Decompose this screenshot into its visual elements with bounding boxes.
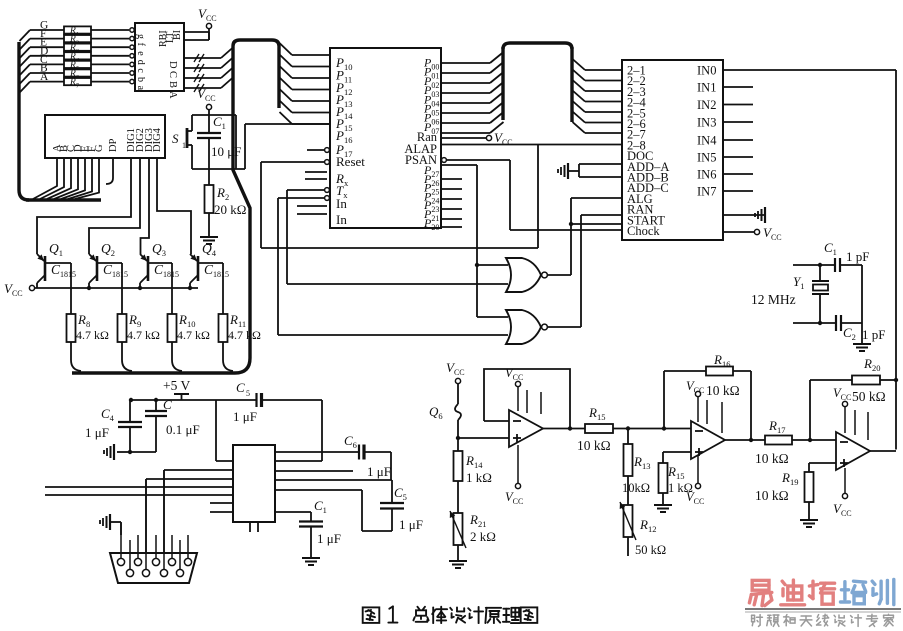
wire U1C output [869,450,896,452]
pin P17 stub of U2 [325,148,330,153]
wire PSAN to mux Chock [442,158,447,163]
svg-text:IN6: IN6 [697,168,716,182]
wire P26 stub [441,178,462,180]
resistor R17 (10k) [765,436,792,445]
pin d of U5 [130,54,134,58]
capacitor C6 (1uF) [274,451,359,453]
node rail-Q2 [87,286,91,290]
svg-text:12 MHz: 12 MHz [751,292,796,307]
svg-text:C: C [163,397,172,412]
pin a of U5 [130,79,134,83]
power Vcc (U1A bottom) [517,445,519,483]
wire C2 to ground [841,322,862,324]
gate G1 (NOR) [506,258,541,292]
svg-text:S: S [172,131,179,146]
svg-text:1 μF: 1 μF [399,517,423,532]
wire R15 to U1B minus [613,428,691,430]
crystal Y1 (12MHz) [819,265,821,281]
op-amp U1A [509,410,543,447]
wire P15 to reset rail [244,124,246,169]
wire bus A to MCU P1x [280,78,293,90]
svg-text:C: C [236,380,245,395]
pin In2 stubs of U2 [297,205,327,207]
svg-text:1 μF: 1 μF [233,409,257,424]
ground (R21) [449,560,467,562]
svg-text:1 pF: 1 pF [846,249,869,264]
resistor R2 (20k) [208,169,210,185]
watermark divider [745,608,901,610]
node rail-Q3 [138,286,142,290]
resistor R14 (1k) [457,438,459,451]
ground (R15b) [654,504,672,506]
ground (C4) [117,451,130,453]
wire U4 right pin 2 [274,479,392,481]
pin g of U5 [130,28,134,32]
pin J1 top 1 [117,558,124,565]
svg-text:g: g [135,34,146,39]
resistor R6 [64,69,91,76]
resistor R15b (1k) [663,451,691,453]
wire MCU P03 to bus B [441,92,490,94]
pin J1 top 4 [168,558,175,565]
wire DS1 pin D to bus [54,158,78,199]
resistor R15 (10k) [585,424,613,433]
svg-text:2 kΩ: 2 kΩ [470,529,496,544]
svg-text:10 kΩ: 10 kΩ [755,488,789,503]
wire U5 output C to bus [184,67,221,69]
svg-text:a: a [135,86,146,91]
pin Rx stubs of U2 [305,171,327,173]
wire bus A to MCU P1x [280,43,293,55]
svg-text:C: C [167,71,178,78]
svg-text:e: e [135,51,146,56]
svg-text:10 kΩ: 10 kΩ [755,451,789,466]
wire DS1 DIG4 to Q4 [157,158,191,254]
resistor R9 (4.7k) [118,314,127,342]
wire MCU P00 to bus B [441,62,490,64]
svg-text:IN4: IN4 [697,134,717,148]
svg-text:10 kΩ: 10 kΩ [706,383,740,398]
svg-text:1 pF: 1 pF [862,327,885,342]
wire bus B to mux 2-7 [573,122,586,133]
wire DS1 pin E to bus [61,158,85,199]
wire MCU P02 to bus B [441,82,490,84]
node rail-Q4 [188,286,192,290]
svg-text:50 kΩ: 50 kΩ [635,543,666,557]
svg-text:G: G [94,144,105,152]
pin J1 bottom 1 [126,569,133,576]
svg-text:10 μF: 10 μF [211,144,241,159]
wire DS1 DIG2 to Q2 [89,158,140,254]
wire gnd to ADD-B [579,176,622,178]
svg-text:1 kΩ: 1 kΩ [668,481,693,495]
potentiometer R12 (50k) [624,505,633,537]
wire In to gate G2 [325,196,330,201]
pin stubs U4 bottom-left [210,502,233,504]
wire ALG net [571,197,622,199]
ground (U3 bottom pin) [723,214,765,216]
pin b of U5 [130,71,134,75]
wire U5 output A to bus [184,87,221,89]
svg-text:IN3: IN3 [697,116,716,130]
wire G1 output to ALG net [547,274,571,276]
wire bus A to MCU P1x [280,66,293,78]
wire IN3 input stub [723,121,753,123]
watermark logo 易迪拓培训 [752,580,769,590]
power Vcc (U3) [723,231,754,233]
svg-text:10 kΩ: 10 kΩ [577,438,611,453]
wire U1B output [723,439,765,441]
wire IN1 input stub [723,86,753,88]
svg-text:4.7 kΩ: 4.7 kΩ [76,328,109,342]
wire reset RC bottom rail [192,168,245,170]
wire thick bus loop B (ADC data) [503,43,572,49]
wire bus B to mux 2-5 [573,101,586,112]
wire P21 stub [441,218,462,220]
pin stubs U4 bottom [249,522,251,532]
wire IN6 input stub [723,173,753,175]
pin J1 top 2 [134,558,141,565]
svg-text:BI: BI [172,30,183,40]
pin c of U5 [130,62,134,66]
power Vcc (Ran pin) [441,137,486,139]
transistor Q2 (C1815) [96,256,99,281]
wire bus B to mux 2-3 [573,80,586,91]
svg-text:PSAN: PSAN [405,153,437,167]
resistor R8 (4.7k) [67,314,76,342]
capacitor C2 (1pF) [835,315,837,331]
svg-text:4.7 kΩ: 4.7 kΩ [228,328,261,342]
resistor R11 (4.7k) [219,314,228,342]
resistor R16 (10k) feedback [663,371,665,429]
svg-text:+5 V: +5 V [163,378,190,393]
wire U4 long pin 1 [45,486,233,488]
IC DS1 4-digit display body [45,115,165,158]
pin J1 top 3 [152,558,159,565]
wire P27 to gate inputs [441,164,477,166]
capacitor C1b (1uF) [274,511,311,513]
capacitor C1 (10uF) [197,132,221,134]
resistor R7 [64,78,91,85]
svg-text:Reset: Reset [336,154,365,169]
connector J1 DB9 shell [110,553,197,583]
svg-text:1 kΩ: 1 kΩ [466,470,492,485]
wire DS1 pin F to bus [68,158,92,199]
svg-text:Chock: Chock [627,224,660,238]
wire MCU P06 to bus B [441,122,490,124]
transistor Q1 (C1815) [44,256,47,281]
pin J1 bottom 4 [176,569,183,576]
ground (J1) [109,514,111,530]
wire +5V rail [131,399,256,401]
svg-text:DP: DP [108,138,119,152]
wire MCU P07 to bus B [441,132,490,134]
wire bus A to MCU P1x [280,112,293,124]
svg-text:In: In [336,196,347,211]
svg-text:c: c [135,68,146,73]
resistor R1 [64,26,91,33]
gate G2 (NOR) [506,310,541,344]
wire C1 to right [840,264,862,266]
wire U1A output [543,428,585,430]
resistor R19 (10k) [809,462,836,464]
wire DS1 pin A to bus [33,158,57,199]
capacitor C5 (1uF) [255,393,257,407]
wire Reset net [325,160,330,165]
svg-text:D: D [167,61,178,69]
wire XTAL2 [793,322,836,324]
ground (crystal) [853,343,871,345]
wire R17 to U1C minus [792,439,836,441]
watermark slogan 射频和天线设计专家 [752,614,755,616]
svg-text:1 μF: 1 μF [317,531,341,546]
svg-text:DIG4: DIG4 [152,127,163,152]
svg-text:4.7 kΩ: 4.7 kΩ [177,328,210,342]
ground (R19) [800,519,818,521]
pin J1 top 5 [184,558,191,565]
power Vcc (U1B bottom) [697,455,699,483]
wire bus A to MCU P1x [280,101,293,113]
wire DS1 DIG1 to Q1 [37,158,131,254]
svg-text:20 kΩ: 20 kΩ [214,202,246,217]
op-amp U1B [691,421,725,459]
ground (C1b) [302,557,320,559]
svg-text:0.1 μF: 0.1 μF [166,422,200,437]
wire bus B to mux 2-6 [573,112,586,123]
wire bus A to MCU P1x [280,55,293,67]
svg-text:IN1: IN1 [697,81,716,95]
wire DS1 pin C to bus [47,158,71,199]
wire thick display bus (bottom horizontal) [26,198,101,201]
wire XTAL1 [793,264,835,266]
svg-text:IN2: IN2 [697,98,716,112]
wire P24 stub [441,198,462,200]
wire DS1 pin DP stub [106,158,113,184]
svg-text:IN0: IN0 [697,64,716,78]
svg-text:5: 5 [246,389,250,398]
svg-text:10kΩ: 10kΩ [622,481,650,495]
resistor R20 (50k) feedback [809,380,811,440]
ground (R2) [200,236,218,238]
wire MCU P01 to bus B [441,72,490,74]
svg-text:50 kΩ: 50 kΩ [852,389,886,404]
capacitor C1 (1pF) [834,258,836,272]
wire U4 pin to +5V net [215,400,217,461]
resistor R2 [64,35,91,42]
svg-text:In: In [336,212,347,227]
caption figure title 图1 总体设计原理图 [363,607,380,623]
svg-text:B: B [167,81,178,88]
svg-text:b: b [135,77,146,82]
power Vcc (U1C bottom) [844,468,846,493]
wire U4 long pin 2 [45,494,233,496]
pin f of U5 [130,36,134,40]
wire U4 pin to DB9-b [146,478,233,480]
resistor R13 (10k) [627,429,629,445]
svg-text:IN7: IN7 [697,185,716,199]
svg-text:d: d [135,60,146,65]
svg-text:1: 1 [182,141,186,150]
wire gnd to ADD-A [579,163,622,165]
IC U3 ADC/mux body [622,60,723,240]
pin e of U5 [130,45,134,49]
wire Tx to gate G1 [325,188,330,193]
wire IN0 to amp output [723,69,896,71]
wire P25 stub [441,188,462,190]
capacitor C4 (1uF) [129,400,131,422]
transistor Q3 (C1815) [147,256,150,281]
wire DS1 DIG3 to Q3 [141,158,150,254]
wire DS1 pin B to bus [40,158,64,199]
wire bus A to MCU P1x [280,89,293,101]
wire P20 stub [441,226,462,228]
wire C5 right to U4 [321,400,323,461]
wire U4 right pin stub [274,470,353,472]
wire MCU P05 to bus B [441,112,490,114]
IC U2 MCU (89C51) body [330,48,441,228]
wire DS1 pin G to bus [75,158,99,199]
wire U1A feedback [484,369,570,429]
svg-text:A: A [167,91,178,99]
capacitor C3 (0.1uF) [155,400,157,411]
wire IN2 input stub [723,104,753,106]
transistor Q4 (C1815) [197,256,200,281]
wire Vcc to S1/C1 top [208,110,210,133]
wire START net [581,214,622,216]
potentiometer R21 (2k) [454,513,463,545]
wire bus B to mux 2-4 [573,91,586,102]
wire U5 output B to bus [184,77,221,79]
pin J1 bottom 3 [160,569,167,576]
wire U4 right pin 3 [274,489,362,491]
IC U4 RS232 driver body [233,445,275,522]
wire Q6 to U1A plus [456,436,460,440]
wire G2 output to START net [547,326,581,328]
svg-text:IN5: IN5 [697,151,716,165]
wire ALAP to mux 2-8 [441,144,622,146]
wire IN7 input stub [723,190,753,192]
resistor R5 [64,61,91,68]
wire MCU P04 to bus B [441,102,490,104]
resistor R4 [64,52,91,59]
wire bus B to mux 2-2 [573,70,586,81]
svg-text:4.7 kΩ: 4.7 kΩ [127,328,160,342]
wire U5 output D to bus [184,57,221,59]
capacitor C5b (1uF) [391,480,393,503]
resistor R10 (4.7k) [168,314,177,342]
svg-text:1 μF: 1 μF [367,464,391,479]
resistor R3 [64,44,91,51]
wire IN5 input stub [723,156,753,158]
IC U5 7-seg decoder (7447) body [135,23,184,91]
wire U4 pin to DB9-a [164,469,233,471]
ground (mux address) [567,163,569,179]
wire IN4 input stub [723,139,753,141]
svg-text:1 μF: 1 μF [85,425,109,440]
pin J1 bottom 2 [142,569,149,576]
wire bus B to mux 2-1 [573,59,586,70]
wire P23 stub [441,208,462,210]
wire thick bus loop A (display data) [233,40,279,108]
op-amp U1C [836,432,870,470]
wire segment-signal bus (left vertical) [17,42,20,190]
wire U5 RBI/BI to Vcc [184,31,209,33]
